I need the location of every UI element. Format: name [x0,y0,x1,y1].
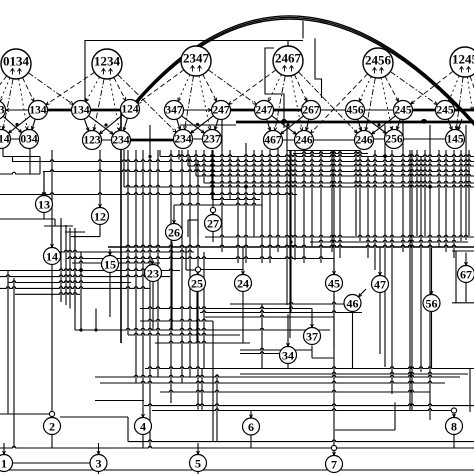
wire v x=238 [237,156,239,263]
wire v x=198 [197,160,199,410]
transition T26 [166,224,183,241]
transition T7 [326,456,343,473]
wire drop into T45 [333,259,336,275]
node 2456 [363,48,393,78]
svg-text:26: 26 [168,226,180,240]
wire [204,181,474,183]
wire v x=96 [95,309,97,331]
node 123 r2 [83,131,102,150]
wire v x=403 [402,120,404,252]
wire arrow (-4, 110)->(29, 139) [3,116,22,132]
dashed arc 2347 to 264,110 [208,70,256,105]
wire v x=392 [391,150,393,394]
wire [205,315,334,317]
wire v x=466 [465,125,467,240]
wire v x75 [74,228,76,310]
wire below circle x=213 [212,232,214,243]
wire [8,281,131,283]
svg-text:0134: 0134 [3,54,30,69]
wire 456-245 [355,109,403,111]
wire v x=295 [294,150,296,260]
wire arrow (445, 110)->(455, 139) [448,119,452,130]
svg-text:247: 247 [255,105,273,117]
svg-text:013: 013 [0,105,5,117]
wire [12,462,90,464]
node 1245 [450,47,474,77]
wire arc [132,16,474,127]
dashed arc 1245 to 482,110 [470,76,474,101]
wire 67 box top [452,250,474,252]
wire thick bus 245-245 [403,109,445,112]
wire drop into T14 [51,228,54,248]
wire [0,269,180,271]
wire [0,172,40,174]
wire v x=66 [65,225,67,305]
wire [95,400,144,402]
wire [293,152,368,154]
svg-text:3: 3 [96,457,102,471]
wire below circle x=143 [142,435,144,449]
svg-text:1245: 1245 [452,52,474,67]
dashed arc 2467 to 221,110 [229,70,276,105]
wire drop 034 [29,148,31,174]
svg-text:246: 246 [295,135,313,147]
wire below circle x=334 [333,292,335,351]
node 145 r2 [446,130,465,149]
svg-text:245: 245 [436,105,454,117]
wire below circle x=288 [287,364,289,369]
wire below circle x=52 [51,435,53,449]
wire below circle x=197 [196,292,198,344]
node 456 r1 [346,101,365,120]
wire v x=246 [245,143,247,263]
connector above T7 [331,445,336,450]
junction [104,123,107,126]
wire hook left of U-2467 [265,48,284,128]
wire [12,160,474,162]
wire v x=412 [411,150,413,411]
node 347 r1 [165,101,184,120]
dashed arc 2456 to 364,140 [365,78,375,131]
wire v x=61 [60,222,62,302]
wire v x=262 [261,304,263,368]
wire [3,156,40,158]
wire arrow (221, 110)->(212, 139) [214,119,218,130]
wire drop into T15 [109,249,112,256]
svg-text:67: 67 [460,268,472,282]
wire v x=222 [221,120,223,252]
wire arrow (355, 110)->(364, 140) [358,119,362,131]
wire [240,352,288,354]
node 0134 [1,49,31,79]
dashed arc 2347 to 212,139 [199,76,211,130]
dashed arc 2456 to 445,110 [390,72,437,105]
node 1234 [92,49,122,79]
dashed arc 2467 to 264,110 [268,75,281,102]
wire drop into T12 [99,204,102,208]
svg-text:134: 134 [72,105,90,117]
wire [72,261,160,263]
svg-text:47: 47 [374,278,386,292]
wire v x=385 [384,125,386,367]
wire [0,469,474,471]
wire arrow (355, 110)->(394, 139) [363,116,387,134]
node 247 r1 [212,101,231,120]
svg-text:467: 467 [264,135,282,147]
wire v x=217 [216,374,218,442]
junction [289,240,292,243]
wire v x=143 [142,150,144,400]
wire thick bus 247-247-267 [221,109,311,112]
junction [15,123,18,126]
wire thick bus 245-edge [445,109,474,112]
node 247 r1 [255,101,274,120]
node 234 r2 [174,130,193,149]
wire below T37 [312,357,334,359]
svg-text:15: 15 [104,258,116,272]
wire v x=270 [269,150,271,263]
wire vertical trunk x121 [120,110,122,343]
svg-text:8: 8 [451,420,457,434]
wire [15,293,80,295]
wire box right [394,403,396,431]
svg-text:267: 267 [302,105,320,117]
svg-text:56: 56 [426,297,438,311]
wire drop into T25 [197,271,200,275]
svg-text:1: 1 [1,457,7,471]
wire v x=304 [303,150,305,263]
wire [310,240,468,242]
wire below circle x=100 [99,225,101,237]
wire v x=417 [416,150,418,236]
wire 347-247 [184,109,212,112]
svg-text:5: 5 [195,457,201,471]
wire v x=75 [74,228,76,330]
wire [205,235,474,237]
wire v x=230 [229,150,231,200]
svg-text:256: 256 [385,134,403,146]
transition T27 [205,215,222,232]
svg-text:124: 124 [121,104,139,116]
junction [244,185,247,188]
wire [188,164,474,166]
wire arrow (403, 110)->(364, 140) [372,116,396,134]
wire arc [132,17,474,128]
node 267 r1 [302,101,321,120]
wire arrow (38, 110)->(29, 139) [31,119,35,130]
wire v x=421 [420,156,422,372]
dashed arc 2347 to 183,139 [184,76,194,130]
svg-text:4: 4 [140,420,146,434]
wire 123-234 [92,139,121,141]
node 245 r1 [436,101,455,120]
dashed arc 0134 to 38,110 [23,78,34,102]
wire [66,257,334,259]
junction [422,120,425,123]
wire arrow (311, 110)->(273, 140) [280,116,303,134]
wire v x=81 [80,252,82,330]
dashed arc 1245 to 474,120 [467,77,473,111]
wire [44,225,73,227]
wire [0,413,52,415]
wire v x=204 [203,150,205,183]
wire v x=190 [189,156,191,377]
wire below circle x=251 [250,435,252,448]
node 245 r1 [394,101,413,120]
node 234 r2 [112,131,131,150]
wire [188,219,198,221]
wire drop into T26 [173,205,176,224]
wire v x=454 [453,150,455,258]
svg-text:34: 34 [282,349,294,363]
node 246 r2 [295,131,314,150]
transition T3 [90,455,107,472]
wire v x=14 [13,278,15,448]
wire [60,416,128,418]
wire [43,170,470,172]
transition T15 [102,256,119,273]
wire v x=430 [429,125,431,420]
svg-text:37: 37 [306,330,318,344]
dashed arc 2456 to 394,139 [381,78,393,130]
wire 467-246 [273,139,304,141]
dashed arc 2456 to 304,140 [311,74,368,133]
svg-text:245: 245 [394,105,412,117]
junction [196,123,199,126]
wire arrow (174, 110)->(212, 139) [182,116,205,133]
wire [152,409,456,411]
wire v x=332 [331,150,333,252]
wire arrow (174, 110)->(183, 139) [177,119,181,130]
dashed arc 2347 to 130,109 [138,70,184,104]
transition T45 [326,275,343,292]
dashed arc 1234 to 38,110 [46,72,95,104]
wire corner [12,157,14,162]
wire [196,174,474,176]
svg-text:23: 23 [147,267,159,281]
wire arrow (81, 110)->(121, 140) [89,116,114,135]
node 256 r2 [385,130,404,149]
wire v x=8 [7,271,9,415]
wire [335,429,395,431]
wire v x=368 [367,156,369,258]
dashed arc 1245 to 445,110 [449,76,460,101]
wire [145,367,474,369]
dashed arc 1234 to 92,140 [93,79,104,131]
wire drop into T3 [97,443,100,455]
wire top-left to U-2467 [85,41,303,105]
wire below circle x=153 [152,282,154,331]
transition T47 [372,276,389,293]
wire v x=136 [135,150,137,383]
wire 234-237 [183,138,212,140]
svg-text:014: 014 [0,134,10,146]
node 237 r2 [203,130,222,149]
wire v x=446 [445,150,447,252]
wire 134-013 [6,109,29,112]
dashed arc 2467 to 304,140 [291,76,303,131]
svg-text:2456: 2456 [365,53,392,68]
wire v x=425 [424,150,426,236]
wire corner [39,157,41,175]
transition T67 [458,266,474,283]
wire [0,275,170,277]
dashed arc 0134 to -20,110 [0,76,7,103]
svg-text:034: 034 [20,134,38,146]
wire [198,269,243,271]
wire [200,311,362,313]
wire below circle x=380 [379,293,381,355]
wire v x=70 [69,228,71,309]
junction [148,155,151,158]
transition T6 [243,418,260,435]
svg-text:45: 45 [328,277,340,291]
wire 134-124 [81,109,130,111]
svg-text:1234: 1234 [94,54,121,69]
wire v x=179 [178,150,180,160]
wire arrow (81, 110)->(92, 140) [84,119,89,131]
wire drop into T2 [51,402,54,418]
wire v x=278 [277,143,279,252]
wire [0,287,150,289]
wire v x=204 [203,252,205,368]
svg-text:234: 234 [112,135,130,147]
svg-text:14: 14 [46,250,58,264]
wire v x=202 [201,369,203,410]
node 134 r1 [72,101,91,120]
wire [100,381,445,383]
wire [95,375,460,377]
wire arrow (264, 110)->(273, 140) [267,119,271,131]
wire arrow (130, 109)->(121, 140) [123,118,127,131]
svg-text:13: 13 [38,198,50,212]
wire 014-034 [1,138,29,140]
wire [212,198,260,200]
node 467 r2 [264,131,283,150]
wire [0,446,474,448]
wire v x=198 [197,220,199,237]
wire v x=439 [438,150,440,247]
wire v x=196 [195,150,197,176]
wire below circle x=466 [465,283,467,303]
svg-text:46: 46 [347,297,359,311]
wire arrow (130, 109)->(92, 140) [99,115,122,134]
wire drop from arc [302,21,304,38]
wire [144,404,474,406]
wire below circle x=198 [197,472,199,474]
wire 67 box bottom [452,302,474,304]
wire 25 feed [185,247,187,270]
dashed arc 1234 to 81,110 [86,77,100,102]
dashed arc 2347 to 221,110 [203,74,217,101]
wire drop into T24 [242,248,245,275]
wire drop into T23 [151,259,154,265]
transition T8 [446,418,463,435]
wire v x=188 [187,150,189,166]
wire drop into T7 [333,450,336,456]
transition T14 [44,248,61,265]
wire drop into T1 [3,443,6,455]
wire [65,231,85,233]
dashed arc 2467 to 364,140 [298,72,357,133]
svg-text:347: 347 [165,105,183,117]
transition T34 [280,347,297,364]
wire corner x213 [212,321,214,442]
wire below circle x=110 [109,273,111,318]
wire drop into T67 [465,253,468,266]
node 246 r2 [355,131,374,150]
wire [0,193,297,195]
wire v x=469 [468,150,470,236]
wire corner x128 [127,417,129,442]
svg-text:6: 6 [248,420,254,434]
wire drop into T6 [250,411,253,418]
transition T1 [0,455,13,472]
wire thick bus 234-234 [121,139,183,142]
wire drop into T13 [43,172,46,196]
wire [287,150,360,152]
transition T37 [304,328,321,345]
junction [428,185,431,188]
dashed arc 1234 to 130,109 [114,77,126,100]
wire [155,341,250,343]
transition T23 [145,265,162,282]
wire v x=360 [359,150,361,241]
connector above T27 [210,207,215,212]
wire drop 014 [2,148,4,157]
dashed arc 1245 to 455,139 [455,77,463,130]
wire [71,236,100,238]
wire below circle x=243 [242,292,244,344]
wire thick bus 134-134-124 [38,109,132,112]
wire box 67 [455,251,457,303]
wire v x=375 [374,150,376,270]
svg-text:234: 234 [174,134,192,146]
wire v x=212 [211,150,213,200]
svg-text:2467: 2467 [275,51,302,66]
wire [140,319,213,321]
dashed arc 2467 to 273,140 [274,76,285,131]
transition T5 [190,455,207,472]
junction [377,123,380,126]
wire drop into T46 [358,289,366,297]
wire [60,250,194,252]
wire hook right of U-2467 [315,38,322,98]
dashed arc 2456 to 403,110 [385,76,399,101]
transition T24 [235,275,252,292]
junction [79,269,82,272]
wire drop into T34 [287,314,290,346]
junction [79,328,82,331]
wire v x=254 [253,150,255,237]
dashed arc 2456 to 355,110 [359,77,371,102]
transition T12 [92,208,109,225]
dashed arc 1234 to 183,139 [118,75,177,133]
dashed arc 0134 to 81,110 [28,73,73,105]
node 014 r2 [0,130,11,149]
dashed arc 2467 to 311,110 [294,75,307,102]
wire v x=461 [460,150,462,241]
wire drop into T56 [430,248,433,295]
svg-text:12: 12 [94,210,106,224]
wire v x=287 [286,125,288,305]
dashed arc 0134 to 29,139 [19,79,29,130]
connector above T25 [195,267,200,272]
wire below circle x=352.5 [352,312,354,369]
wire arrow (465, 110)->(455, 139) [458,119,462,130]
svg-text:456: 456 [346,105,364,117]
wire corner x55 [54,219,56,226]
